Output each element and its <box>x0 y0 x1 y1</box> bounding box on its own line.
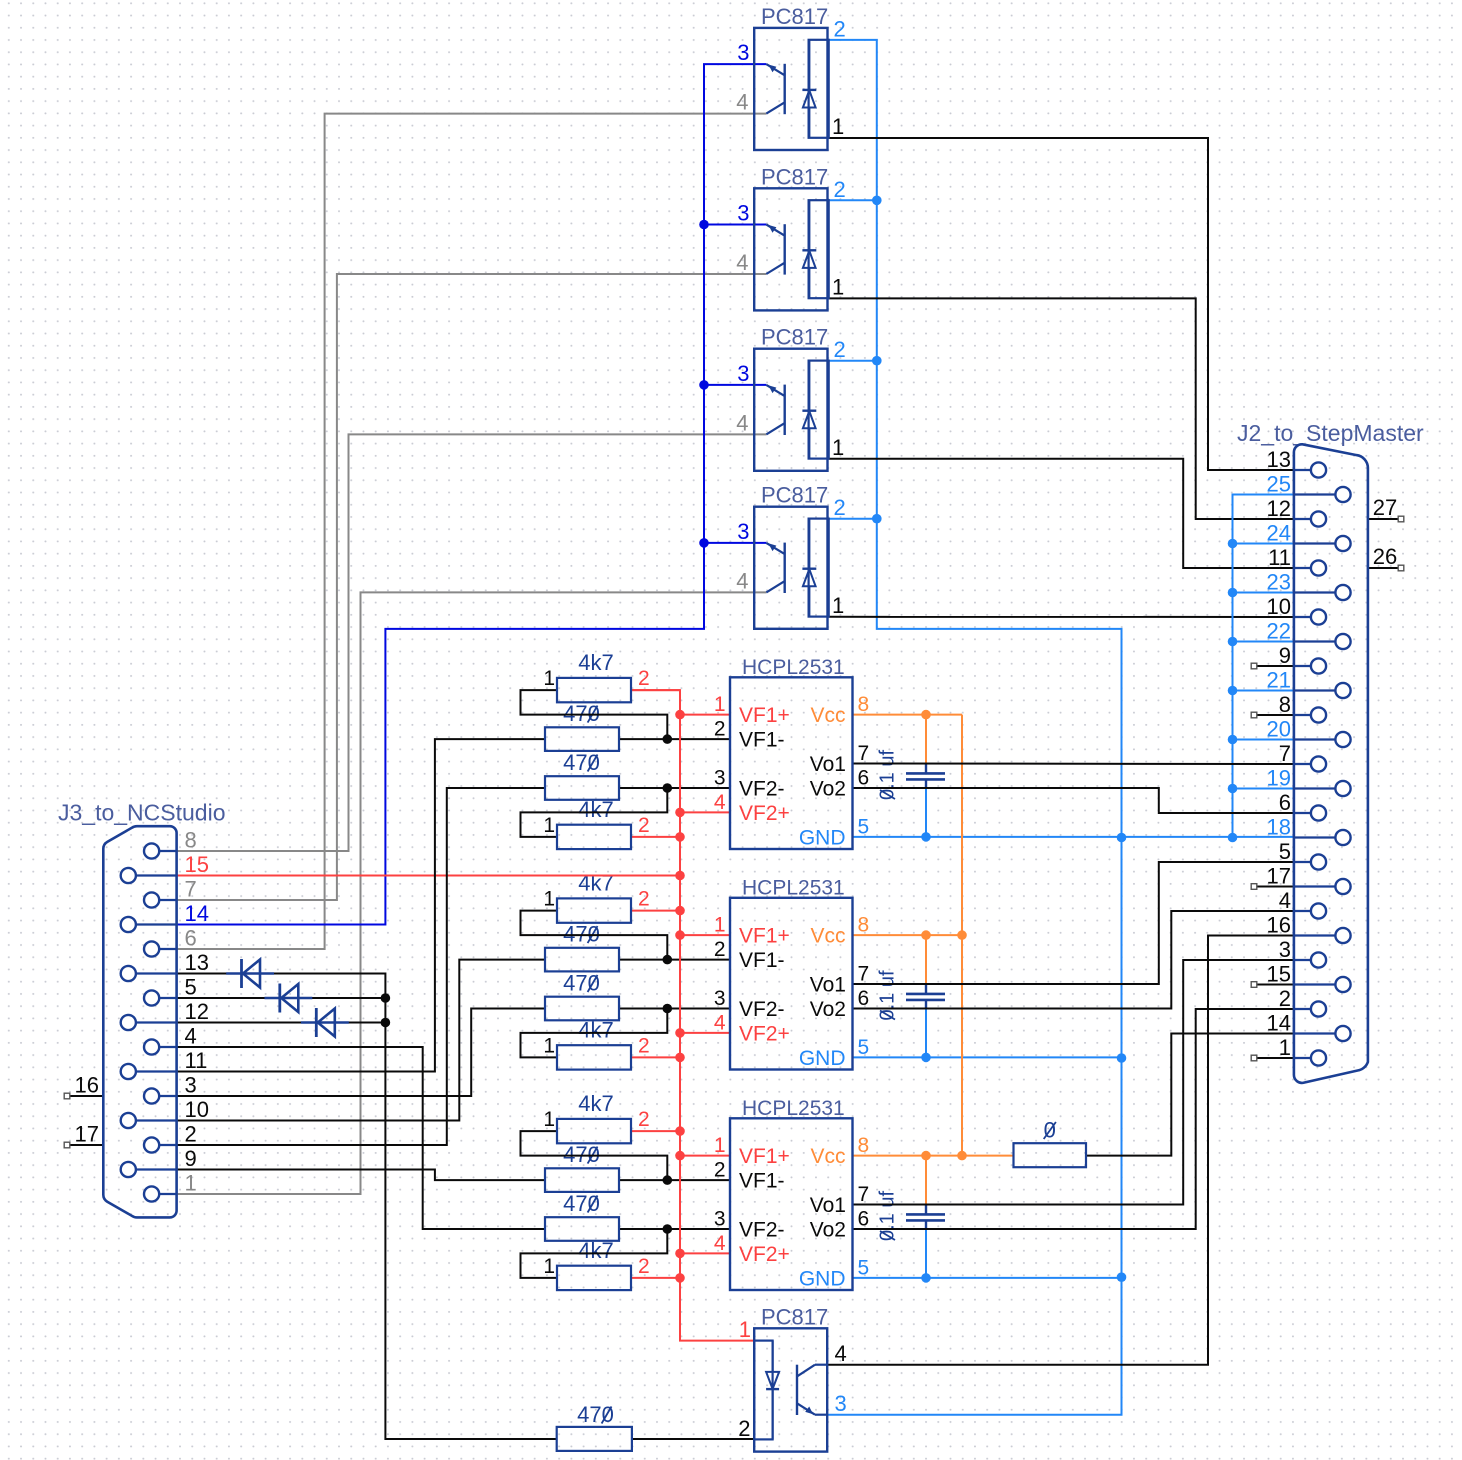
svg-text:Vo2: Vo2 <box>810 1219 846 1242</box>
svg-text:4k7: 4k7 <box>578 871 613 896</box>
svg-text:23: 23 <box>1267 570 1291 595</box>
svg-text:4: 4 <box>1279 888 1291 913</box>
svg-text:VF2-: VF2- <box>739 778 785 801</box>
svg-text:2: 2 <box>638 1034 650 1057</box>
svg-text:1: 1 <box>543 1255 555 1278</box>
svg-text:5: 5 <box>1279 839 1291 864</box>
svg-text:Vcc: Vcc <box>810 1145 845 1168</box>
svg-text:4: 4 <box>185 1024 197 1049</box>
svg-text:8: 8 <box>1279 692 1291 717</box>
svg-text:2: 2 <box>638 814 650 837</box>
svg-text:1: 1 <box>714 1134 726 1157</box>
svg-text:PC817: PC817 <box>761 4 828 29</box>
svg-text:5: 5 <box>858 815 870 838</box>
svg-text:VF2+: VF2+ <box>739 802 790 825</box>
svg-text:3: 3 <box>737 40 749 65</box>
svg-text:PC817: PC817 <box>761 1304 828 1329</box>
svg-text:470: 470 <box>563 1191 600 1216</box>
svg-text:1: 1 <box>832 593 844 618</box>
svg-text:Vcc: Vcc <box>810 925 845 948</box>
svg-text:VF1+: VF1+ <box>739 704 790 727</box>
svg-text:1: 1 <box>739 1317 751 1342</box>
svg-text:8: 8 <box>858 914 870 937</box>
svg-text:16: 16 <box>75 1073 99 1098</box>
svg-text:7: 7 <box>185 877 197 902</box>
svg-text:Vo1: Vo1 <box>810 1194 846 1217</box>
svg-text:1: 1 <box>543 888 555 911</box>
svg-text:17: 17 <box>1267 864 1291 889</box>
svg-text:VF1-: VF1- <box>739 949 785 972</box>
svg-text:26: 26 <box>1373 544 1397 569</box>
svg-text:1: 1 <box>832 435 844 460</box>
svg-text:15: 15 <box>185 852 209 877</box>
svg-text:3: 3 <box>714 1208 726 1231</box>
svg-text:Vo2: Vo2 <box>810 998 846 1021</box>
svg-text:HCPL2531: HCPL2531 <box>742 876 845 899</box>
svg-text:3: 3 <box>1279 937 1291 962</box>
svg-text:9: 9 <box>1279 643 1291 668</box>
svg-text:11: 11 <box>1268 545 1291 570</box>
svg-text:3: 3 <box>737 361 749 386</box>
svg-text:1: 1 <box>543 1034 555 1057</box>
svg-text:7: 7 <box>1279 741 1291 766</box>
svg-text:4: 4 <box>835 1341 847 1366</box>
svg-text:HCPL2531: HCPL2531 <box>742 1097 845 1120</box>
svg-text:PC817: PC817 <box>761 164 828 189</box>
svg-text:2: 2 <box>638 1255 650 1278</box>
svg-text:VF2+: VF2+ <box>739 1022 790 1045</box>
svg-text:VF2+: VF2+ <box>739 1243 790 1266</box>
svg-text:470: 470 <box>563 971 600 996</box>
svg-text:1: 1 <box>832 274 844 299</box>
svg-text:Vo2: Vo2 <box>810 778 846 801</box>
svg-text:2: 2 <box>714 1159 726 1182</box>
svg-text:12: 12 <box>1267 496 1291 521</box>
svg-text:19: 19 <box>1267 766 1291 791</box>
svg-text:4: 4 <box>714 1232 726 1255</box>
svg-text:3: 3 <box>714 987 726 1010</box>
svg-text:15: 15 <box>1267 962 1291 987</box>
svg-text:J2_to_StepMaster: J2_to_StepMaster <box>1237 420 1424 446</box>
svg-text:6: 6 <box>858 987 870 1010</box>
svg-text:12: 12 <box>185 999 209 1024</box>
svg-text:14: 14 <box>185 901 209 926</box>
svg-text:Vcc: Vcc <box>810 704 845 727</box>
svg-text:11: 11 <box>185 1048 208 1073</box>
svg-text:1: 1 <box>714 693 726 716</box>
svg-text:1: 1 <box>543 667 555 690</box>
svg-text:GND: GND <box>799 1267 846 1290</box>
svg-text:7: 7 <box>858 742 870 765</box>
svg-text:5: 5 <box>858 1256 870 1279</box>
svg-text:4: 4 <box>714 791 726 814</box>
svg-text:Vo1: Vo1 <box>810 974 846 997</box>
svg-text:PC817: PC817 <box>761 483 828 508</box>
svg-text:4: 4 <box>736 410 748 435</box>
svg-text:16: 16 <box>1267 913 1291 938</box>
svg-text:4: 4 <box>714 1011 726 1034</box>
svg-text:1: 1 <box>185 1171 197 1196</box>
svg-text:3: 3 <box>737 519 749 544</box>
svg-text:0.1 uf: 0.1 uf <box>877 970 899 1020</box>
svg-text:4: 4 <box>736 90 748 115</box>
svg-text:VF1+: VF1+ <box>739 925 790 948</box>
svg-text:2: 2 <box>738 1416 750 1441</box>
svg-text:3: 3 <box>714 767 726 790</box>
svg-text:2: 2 <box>185 1122 197 1147</box>
svg-text:0.1 uf: 0.1 uf <box>877 750 899 800</box>
svg-text:5: 5 <box>858 1036 870 1059</box>
svg-text:2: 2 <box>714 718 726 741</box>
svg-text:1: 1 <box>1279 1035 1291 1060</box>
svg-text:2: 2 <box>1279 986 1291 1011</box>
svg-text:HCPL2531: HCPL2531 <box>742 656 845 679</box>
svg-text:2: 2 <box>834 495 846 520</box>
svg-text:10: 10 <box>1267 594 1291 619</box>
svg-text:GND: GND <box>799 1047 846 1070</box>
svg-text:VF1-: VF1- <box>739 1170 785 1193</box>
svg-text:2: 2 <box>834 177 846 202</box>
svg-text:2: 2 <box>834 16 846 41</box>
svg-text:1: 1 <box>832 114 844 139</box>
svg-text:J3_to_NCStudio: J3_to_NCStudio <box>58 800 226 826</box>
svg-text:VF1-: VF1- <box>739 729 785 752</box>
svg-text:1: 1 <box>543 814 555 837</box>
svg-text:1: 1 <box>714 914 726 937</box>
svg-text:VF2-: VF2- <box>739 998 785 1021</box>
svg-text:470: 470 <box>577 1402 614 1427</box>
svg-text:21: 21 <box>1267 668 1291 693</box>
svg-text:0.1 uf: 0.1 uf <box>877 1191 899 1241</box>
svg-text:17: 17 <box>75 1122 99 1147</box>
svg-text:7: 7 <box>858 963 870 986</box>
svg-text:20: 20 <box>1267 717 1291 742</box>
svg-text:6: 6 <box>858 767 870 790</box>
svg-text:2: 2 <box>638 667 650 690</box>
svg-text:6: 6 <box>185 926 197 951</box>
svg-text:25: 25 <box>1267 472 1291 497</box>
svg-text:2: 2 <box>714 938 726 961</box>
svg-text:3: 3 <box>835 1391 847 1416</box>
svg-text:27: 27 <box>1373 495 1397 520</box>
svg-text:18: 18 <box>1267 815 1291 840</box>
svg-text:14: 14 <box>1267 1011 1291 1036</box>
svg-text:7: 7 <box>858 1183 870 1206</box>
svg-text:Vo1: Vo1 <box>810 753 846 776</box>
svg-text:13: 13 <box>1267 447 1291 472</box>
svg-text:24: 24 <box>1267 521 1291 546</box>
svg-text:6: 6 <box>1279 790 1291 815</box>
svg-text:3: 3 <box>737 201 749 226</box>
svg-text:GND: GND <box>799 826 846 849</box>
svg-text:8: 8 <box>185 828 197 853</box>
svg-text:4k7: 4k7 <box>578 1091 613 1116</box>
svg-text:VF1+: VF1+ <box>739 1145 790 1168</box>
svg-text:2: 2 <box>834 337 846 362</box>
svg-text:PC817: PC817 <box>761 325 828 350</box>
svg-text:1: 1 <box>543 1108 555 1131</box>
svg-text:3: 3 <box>185 1073 197 1098</box>
svg-text:10: 10 <box>185 1097 209 1122</box>
svg-text:4: 4 <box>736 250 748 275</box>
svg-text:5: 5 <box>185 975 197 1000</box>
svg-text:8: 8 <box>858 693 870 716</box>
svg-text:470: 470 <box>563 750 600 775</box>
svg-text:VF2-: VF2- <box>739 1219 785 1242</box>
svg-text:9: 9 <box>185 1146 197 1171</box>
svg-text:8: 8 <box>858 1134 870 1157</box>
svg-text:2: 2 <box>638 888 650 911</box>
svg-text:4: 4 <box>736 568 748 593</box>
svg-text:13: 13 <box>185 950 209 975</box>
svg-text:2: 2 <box>638 1108 650 1131</box>
svg-text:4k7: 4k7 <box>578 650 613 675</box>
svg-text:22: 22 <box>1267 619 1291 644</box>
svg-text:6: 6 <box>858 1208 870 1231</box>
